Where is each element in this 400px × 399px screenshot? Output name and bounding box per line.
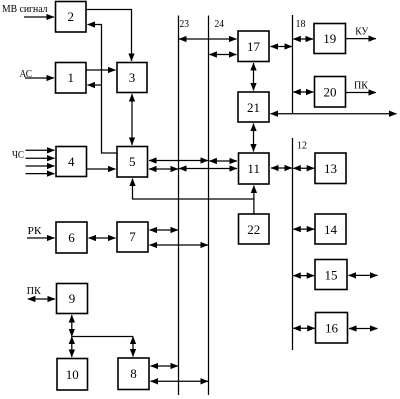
wire box17 - box21 bidirectional vertical bbox=[253, 63, 255, 91]
svg-text:5: 5 bbox=[129, 154, 136, 169]
box 2 bbox=[56, 2, 87, 33]
svg-text:24: 24 bbox=[215, 18, 225, 30]
svg-text:6: 6 bbox=[68, 230, 75, 245]
wire box9 - junction bidirectional bbox=[71, 315, 73, 337]
box 14 bbox=[315, 214, 346, 244]
wire box6 - box7 bidirectional bbox=[89, 237, 116, 239]
box 19 bbox=[314, 24, 346, 54]
wire feedback from box5 left up into box2 right bbox=[88, 25, 118, 154]
wire branch from box22 line to box5 bottom bbox=[133, 179, 254, 200]
wire bus12 - box13 bidirectional bbox=[293, 167, 314, 169]
bus 23 vertical line bbox=[178, 16, 180, 396]
wire box21 - box11 bidirectional vertical bbox=[253, 124, 255, 152]
box 3 bbox=[117, 63, 147, 93]
wire box5 - bus23 lower bidirectional bbox=[149, 168, 178, 170]
wire PK bidirectional into box9 bbox=[28, 298, 55, 300]
wire box19 output KU bbox=[346, 38, 377, 40]
box 5 bbox=[117, 147, 148, 178]
wire bus23 - box11 lower bidirectional bbox=[179, 168, 237, 170]
svg-text:РК: РК bbox=[28, 225, 43, 237]
wire ChS input line 4 into box4 bbox=[26, 173, 55, 175]
svg-text:11: 11 bbox=[247, 161, 260, 176]
svg-text:ЧС: ЧС bbox=[12, 149, 24, 161]
svg-text:21: 21 bbox=[247, 100, 260, 115]
wire ChS input line 1 into box4 bbox=[26, 149, 55, 151]
box 10 bbox=[57, 359, 88, 391]
box 6 bbox=[56, 222, 87, 253]
wire MV signal input into box 2 bbox=[24, 16, 54, 18]
box 7 bbox=[117, 222, 148, 252]
svg-text:КУ: КУ bbox=[355, 26, 368, 38]
wire box21 long bidirectional line to right edge bbox=[271, 113, 397, 115]
wire bus24 - box17 bidirectional bbox=[209, 54, 236, 56]
box 13 bbox=[315, 153, 346, 184]
wire box20 output PK bbox=[346, 92, 377, 94]
wire box2 output to box3 top bbox=[86, 10, 132, 62]
box 9 bbox=[57, 284, 88, 314]
wire RK input into box6 bbox=[27, 237, 55, 239]
svg-text:12: 12 bbox=[297, 140, 307, 152]
wire box8 - bus23 bidirectional bbox=[151, 365, 179, 367]
svg-text:13: 13 bbox=[324, 161, 337, 176]
wire box5 - bus24 upper bidirectional bbox=[149, 160, 208, 162]
svg-text:15: 15 bbox=[325, 268, 338, 283]
wire box15 right bidirectional bbox=[349, 274, 378, 276]
svg-text:ПК: ПК bbox=[27, 285, 42, 297]
box 20 bbox=[315, 77, 346, 108]
wire bus24 - box11 upper bidirectional bbox=[209, 160, 237, 162]
wire ChS input line 3 into box4 bbox=[26, 165, 55, 167]
wire box1 to box3 bbox=[86, 69, 116, 71]
svg-text:23: 23 bbox=[180, 18, 190, 30]
svg-text:14: 14 bbox=[324, 222, 338, 237]
wire box7 - bus23 bidirectional bbox=[150, 229, 179, 231]
svg-text:18: 18 bbox=[296, 18, 306, 30]
bus 18 vertical line bbox=[292, 15, 294, 114]
box 22 bbox=[239, 214, 270, 244]
svg-text:16: 16 bbox=[325, 321, 339, 336]
wire ChS input line 2 into box4 bbox=[26, 157, 55, 159]
wire box8 - bus24 bidirectional bbox=[151, 380, 209, 382]
bus 24 vertical line bbox=[208, 16, 210, 396]
box 21 bbox=[238, 92, 269, 122]
svg-text:2: 2 bbox=[67, 9, 74, 24]
box 15 bbox=[315, 260, 347, 290]
svg-text:19: 19 bbox=[323, 31, 336, 46]
svg-text:22: 22 bbox=[247, 222, 260, 237]
wire bus18 - box20 bidirectional bbox=[293, 91, 313, 93]
svg-text:17: 17 bbox=[247, 39, 261, 54]
wire box17 - bus18 bidirectional bbox=[271, 46, 293, 48]
wire box4 to box5 bbox=[87, 168, 116, 170]
wire branch from feedback line into box1 right bbox=[88, 84, 102, 86]
box 4 bbox=[56, 147, 87, 177]
wire bus18 - box19 bidirectional bbox=[293, 38, 313, 40]
svg-text:ПК: ПК bbox=[354, 80, 369, 92]
wire junction - box10 bidirectional bbox=[71, 337, 73, 358]
wire junction - box8 bidirectional bbox=[132, 337, 134, 357]
svg-text:4: 4 bbox=[68, 154, 75, 169]
svg-text:10: 10 bbox=[66, 367, 79, 382]
svg-text:8: 8 bbox=[130, 366, 137, 381]
bus 12 vertical line bbox=[292, 138, 294, 350]
wire bus12 - box16 bidirectional bbox=[293, 327, 315, 329]
wire bus23 - box17 bidirectional bbox=[179, 38, 237, 40]
svg-text:МВ сигнал: МВ сигнал bbox=[2, 3, 48, 15]
svg-text:3: 3 bbox=[129, 70, 136, 85]
wire box11 - bus12 bidirectional bbox=[271, 167, 292, 169]
wire junction horizontal to box8 branch bbox=[72, 336, 133, 338]
svg-text:7: 7 bbox=[129, 229, 136, 244]
box 16 bbox=[316, 313, 348, 344]
wire box3 - box5 bidirectional vertical bbox=[131, 94, 133, 145]
wire box22 up to box11 bottom bbox=[253, 186, 255, 215]
svg-text:20: 20 bbox=[324, 85, 337, 100]
wire AC input into box 1 bbox=[25, 77, 54, 79]
box 17 bbox=[238, 31, 269, 62]
box 8 bbox=[118, 358, 149, 390]
wire box7 - bus24 bidirectional bbox=[150, 244, 209, 246]
svg-text:9: 9 bbox=[69, 291, 76, 306]
wire bus12 - box15 bidirectional bbox=[293, 275, 314, 277]
box 11 bbox=[239, 153, 270, 184]
wire box16 right bidirectional bbox=[349, 328, 378, 330]
svg-text:1: 1 bbox=[67, 70, 74, 85]
wire bus12 - box14 bidirectional bbox=[293, 228, 314, 230]
box 1 bbox=[56, 63, 87, 94]
